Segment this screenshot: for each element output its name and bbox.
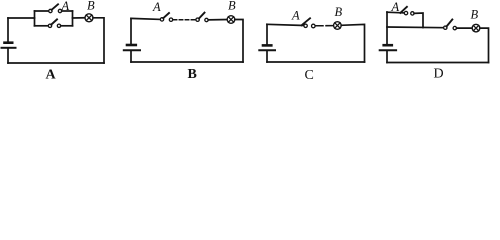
caption A — [46, 68, 57, 83]
circuit B : battery cell (short negative plate) — [127, 44, 136, 47]
circuit A : bottom return wire — [8, 62, 104, 64]
circuit C : switch label A — [291, 9, 300, 23]
svg-text:A: A — [391, 0, 400, 14]
circuit C : battery cell (short negative plate) — [263, 44, 271, 47]
caption C — [305, 68, 314, 83]
circuit B : second switch (open knife switch) — [196, 13, 208, 22]
svg-text:A: A — [46, 68, 57, 82]
circuit A : battery cell (long positive plate) — [2, 47, 16, 49]
circuit B : wire switch to lamp — [208, 19, 227, 21]
circuit A : parallel box right edge wire — [72, 11, 74, 26]
circuit D : lamp label B — [471, 7, 479, 21]
svg-text:B: B — [471, 7, 479, 21]
circuit A : switch label A — [61, 0, 70, 13]
circuit B : top-left corner wire to switch A — [131, 18, 160, 19]
circuit D : left edge wire lower — [386, 51, 388, 63]
caption B — [188, 67, 197, 82]
circuit C : lamp label B — [335, 5, 343, 19]
circuit B : wire lamp to right edge down — [235, 20, 243, 63]
circuit C : lamp B (circle with cross) — [334, 22, 342, 30]
circuit C : wire lamp to right edge down — [341, 24, 364, 62]
circuit C : left edge wire lower — [266, 51, 268, 62]
circuit A : lamp label B — [87, 0, 95, 12]
circuit B : switch label A — [152, 0, 161, 14]
circuit D : wire lamp to right edge down — [480, 28, 489, 62]
circuit A : wire from box to lamp — [73, 17, 86, 19]
circuit D : battery cell (long positive plate) — [380, 49, 396, 51]
svg-text:A: A — [152, 0, 161, 14]
circuit D : wire switch to lamp — [457, 27, 473, 29]
circuit D : bypass branch top wire to switch A — [387, 11, 404, 14]
caption D — [434, 67, 444, 82]
circuit D : battery cell (short negative plate) — [384, 44, 392, 47]
circuit B : left edge wire upper — [130, 18, 132, 44]
svg-text:A: A — [291, 9, 300, 23]
svg-text:B: B — [335, 5, 343, 19]
circuit C : top-left corner wire to switch A — [267, 24, 304, 25]
circuit C : battery cell (long positive plate) — [259, 49, 275, 51]
circuit C : switch A (open knife switch) — [302, 18, 316, 28]
circuit D : main wire from left edge to second switch — [387, 26, 444, 29]
circuit A : battery cell (short negative plate) — [5, 41, 13, 44]
circuit D : lamp B (circle with cross) — [472, 24, 480, 32]
circuit B : battery cell (long positive plate) — [124, 49, 140, 51]
svg-text:B: B — [228, 0, 236, 13]
svg-text:C: C — [305, 68, 314, 81]
circuit C : bottom return wire — [267, 61, 365, 63]
svg-text:B: B — [87, 0, 95, 12]
svg-text:B: B — [188, 67, 197, 81]
circuit B : left edge wire lower — [130, 51, 132, 62]
circuit A : left edge wire lower — [7, 49, 9, 64]
circuit D : bypass branch wire to right vertical down to main wire — [414, 13, 423, 28]
circuit C : left edge wire upper — [266, 24, 268, 44]
circuit B : lamp label B — [228, 0, 236, 13]
circuit D : switch A (open knife switch) — [400, 7, 414, 15]
circuit D : bottom return wire — [387, 62, 489, 64]
circuit D : switch label A — [391, 0, 400, 14]
svg-text:A: A — [61, 0, 70, 13]
circuit A : left edge wire upper — [7, 18, 9, 42]
circuit B : dashed wire between the two switches — [173, 19, 196, 21]
circuit C : dashed wire from switch to lamp — [316, 25, 335, 27]
circuit A : wire from battery + terminal to parallel switch box — [8, 17, 35, 19]
circuit B : switch A (open knife switch) — [160, 13, 172, 21]
circuit D : left edge wire upper (bypass top to main to battery) — [386, 12, 388, 44]
circuit A : lamp B (circle with cross) — [85, 14, 93, 22]
circuit B : lamp B (circle with cross) — [227, 16, 235, 24]
circuit D : second switch (open knife switch) — [444, 20, 457, 30]
circuit A : second switch (bottom branch, open knife switch) — [35, 19, 73, 27]
svg-text:D: D — [434, 67, 444, 82]
circuit A : switch A (top branch, open knife switch) — [35, 4, 73, 12]
circuit A : parallel box left edge wire — [34, 11, 36, 26]
circuit B : bottom return wire — [131, 61, 243, 63]
circuit A : wire lamp to top-right corner and right edge down — [93, 18, 104, 63]
